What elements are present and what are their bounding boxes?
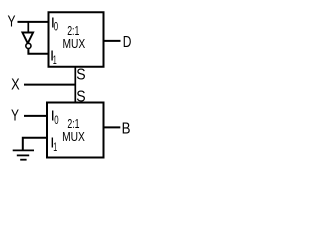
svg-text:D: D xyxy=(123,32,132,50)
svg-text:Y: Y xyxy=(8,12,16,30)
inverter (NOT gate) triangle xyxy=(22,33,33,44)
wire inverter output to I1 (top mux) xyxy=(28,48,48,53)
svg-text:X: X xyxy=(11,76,20,94)
svg-text:1: 1 xyxy=(53,141,57,154)
wire B output xyxy=(104,126,121,128)
svg-text:MUX: MUX xyxy=(63,38,86,51)
wire Y to I0 (bottom mux) xyxy=(24,115,47,117)
svg-text:0: 0 xyxy=(54,115,59,128)
op-amp U1: 2:1 MUX (top) box xyxy=(49,12,104,67)
wire Y to I0 (top mux) xyxy=(18,21,49,23)
svg-text:0: 0 xyxy=(54,21,59,34)
inverter bubble xyxy=(26,43,31,48)
wire D output xyxy=(104,40,121,42)
ground xyxy=(13,150,34,159)
svg-text:B: B xyxy=(122,120,131,137)
svg-text:MUX: MUX xyxy=(62,131,85,144)
wire junction drop to inverter input xyxy=(27,22,29,33)
svg-text:S: S xyxy=(76,66,85,84)
op-amp U2: 2:1 MUX (bottom) box xyxy=(47,103,104,158)
wire ground to I1 (bottom mux) xyxy=(23,138,47,151)
svg-text:Y: Y xyxy=(11,106,19,124)
svg-text:1: 1 xyxy=(53,54,57,67)
svg-text:2:1: 2:1 xyxy=(67,117,79,131)
wire X to S line xyxy=(24,84,76,86)
svg-text:2:1: 2:1 xyxy=(67,25,79,39)
wire S select line between muxes xyxy=(74,66,76,103)
